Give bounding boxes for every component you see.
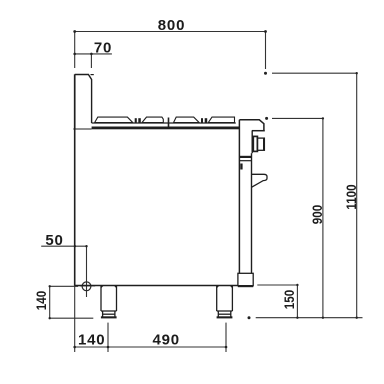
svg-text:490: 490 [152,332,179,349]
svg-text:800: 800 [158,17,185,34]
svg-text:1100: 1100 [343,184,359,209]
svg-text:150: 150 [281,290,297,309]
svg-text:140: 140 [33,291,49,310]
svg-text:900: 900 [309,205,325,224]
svg-text:140: 140 [78,332,105,349]
svg-text:50: 50 [45,232,63,249]
svg-text:70: 70 [94,40,112,57]
